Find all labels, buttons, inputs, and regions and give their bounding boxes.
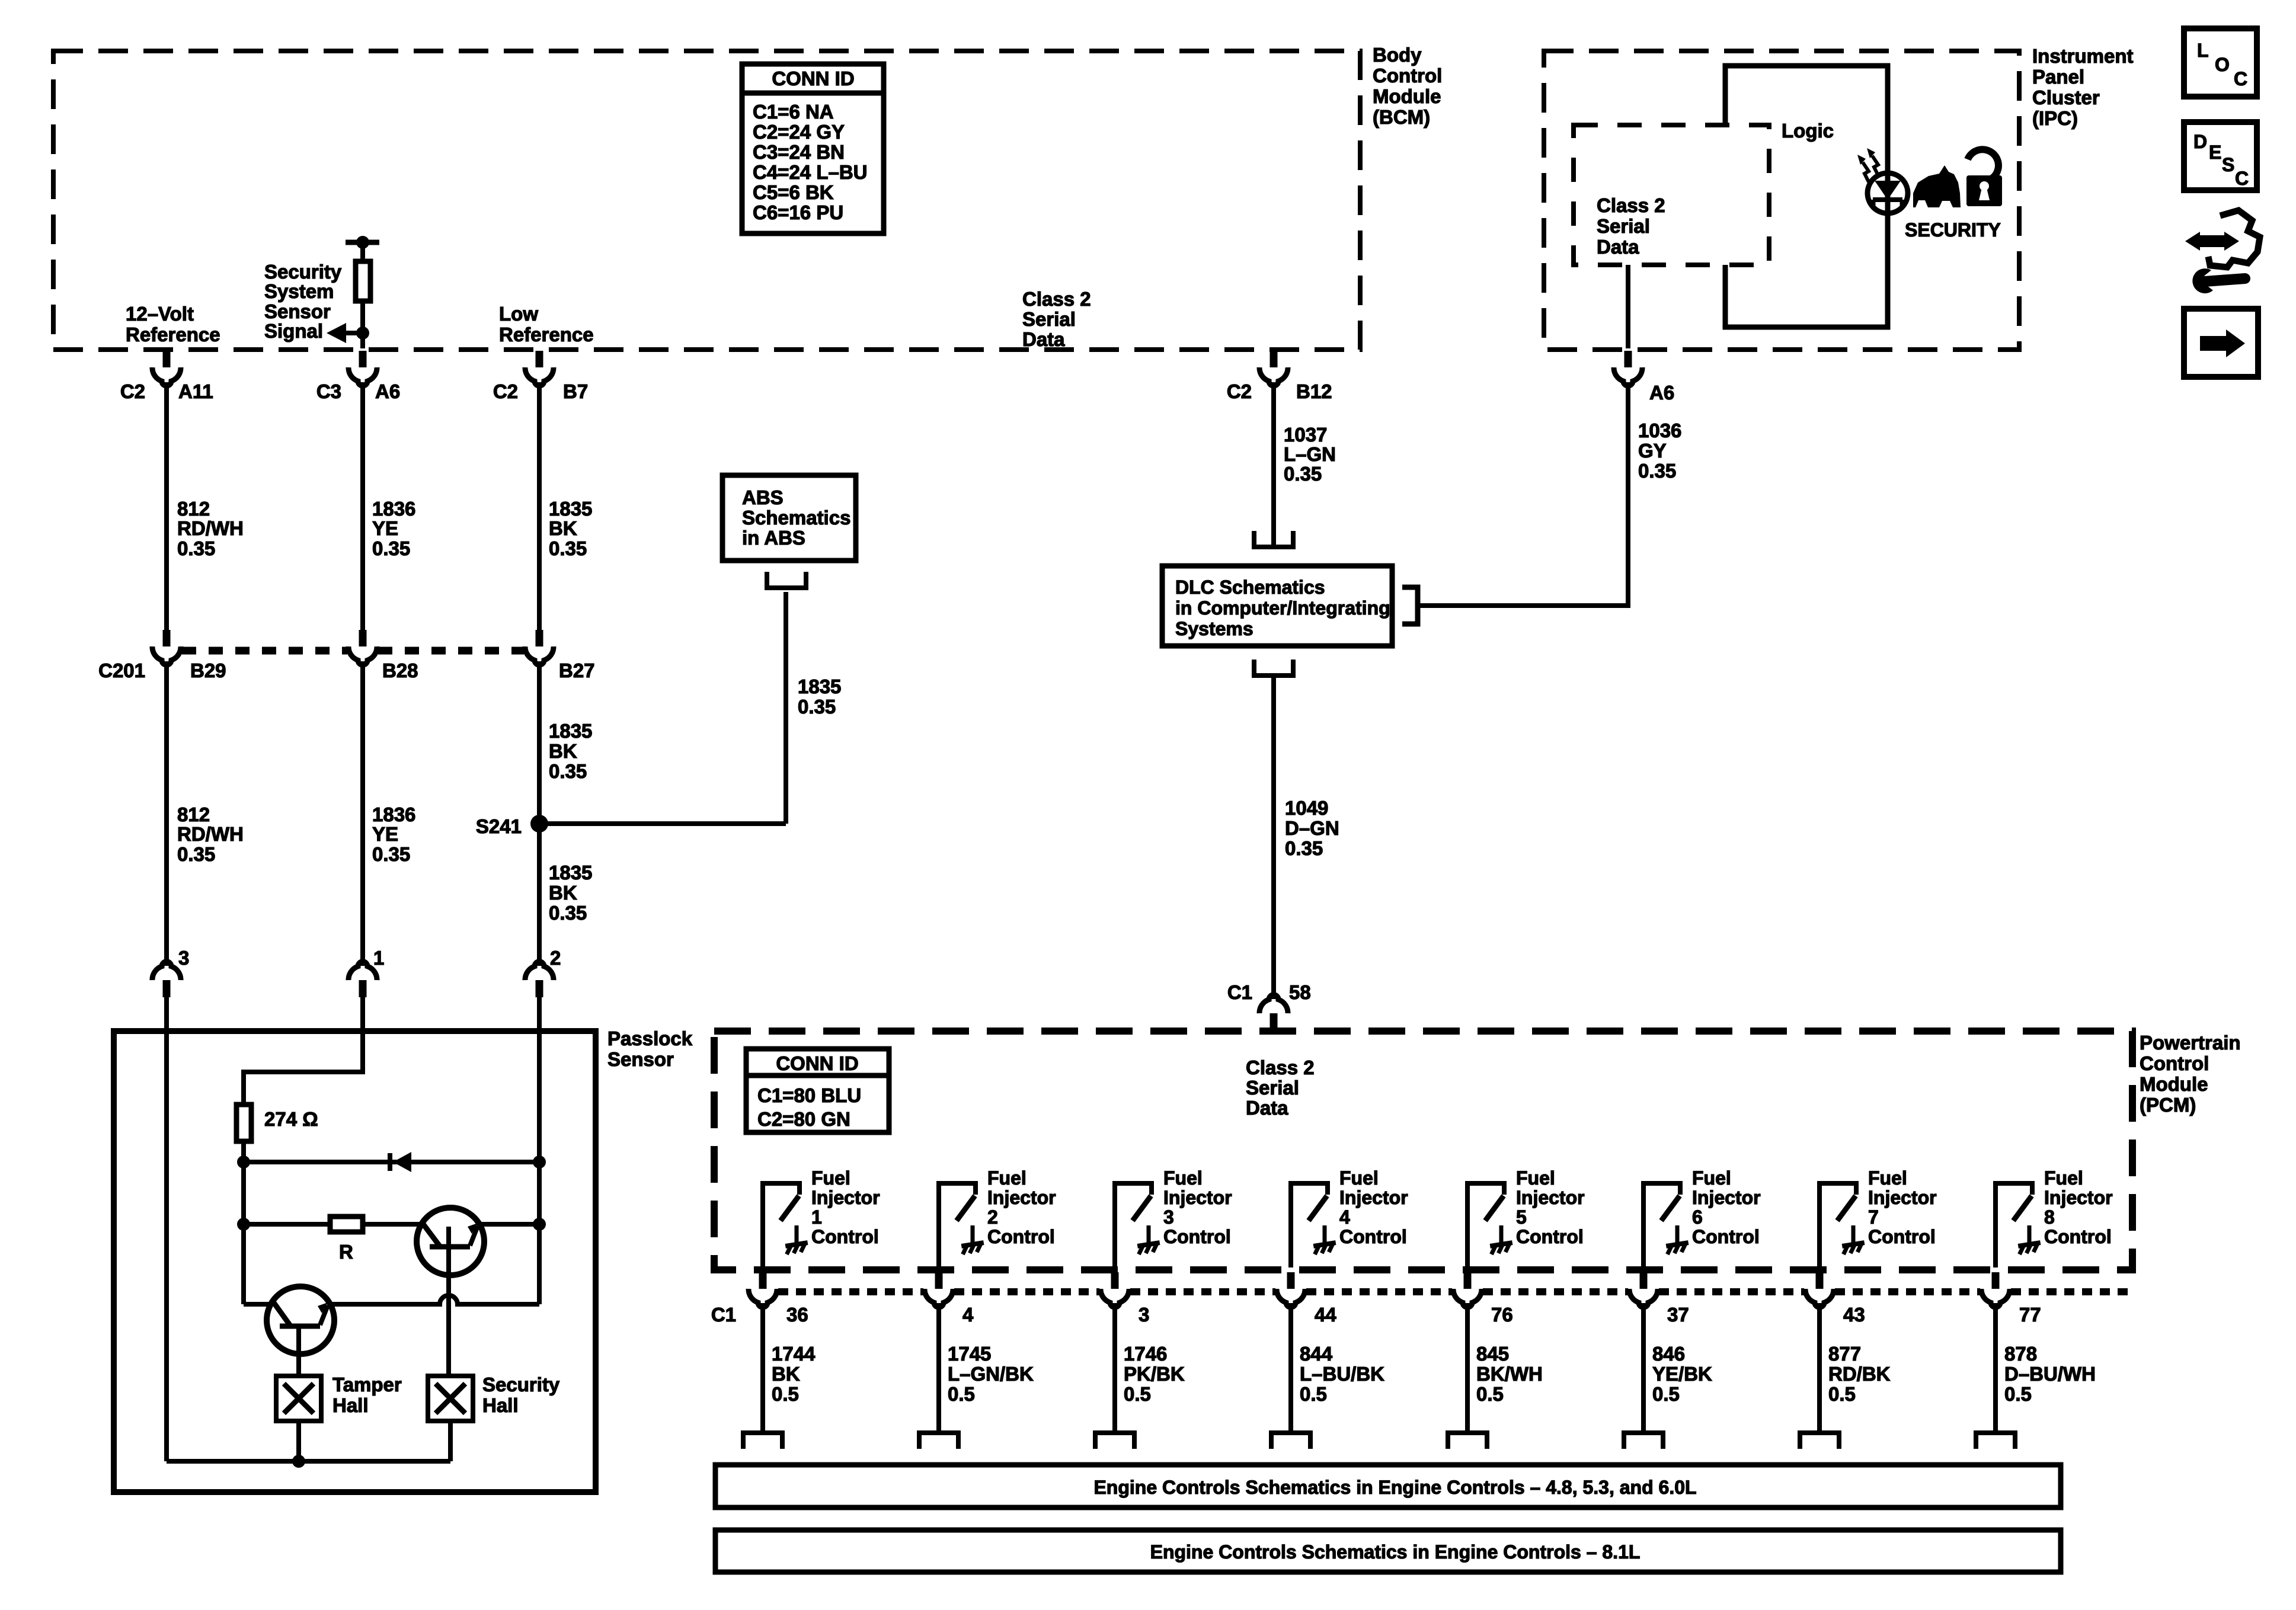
ground (injector 3)	[1137, 1225, 1161, 1254]
svg-text:8: 8	[2044, 1206, 2055, 1228]
resistor 274 ohm	[236, 1105, 251, 1141]
svg-text:(IPC): (IPC)	[2032, 107, 2078, 129]
ground (injector 6)	[1666, 1225, 1690, 1254]
svg-text:0.5: 0.5	[2004, 1383, 2032, 1405]
fuel injector 3 driver switch	[1115, 1183, 1152, 1267]
svg-text:Sensor: Sensor	[264, 300, 331, 322]
svg-text:CONN ID: CONN ID	[772, 68, 854, 89]
svg-text:Hall: Hall	[332, 1394, 369, 1416]
svg-text:Injector: Injector	[811, 1187, 880, 1208]
svg-text:C1: C1	[711, 1304, 736, 1326]
fuel injector 5 driver switch	[1467, 1183, 1504, 1267]
svg-text:BK: BK	[772, 1363, 800, 1385]
ABS off-page bracket	[765, 572, 808, 590]
svg-text:844: 844	[1300, 1343, 1333, 1365]
svg-text:Panel: Panel	[2032, 66, 2084, 88]
Security Hall element	[428, 1376, 473, 1421]
svg-text:Injector: Injector	[1692, 1187, 1761, 1208]
svg-text:5: 5	[1516, 1206, 1527, 1228]
Powertrain Control Module (PCM) dashed box	[714, 1031, 2132, 1270]
DLC right bracket	[1402, 587, 1418, 624]
svg-text:0.35: 0.35	[549, 902, 587, 924]
off-page bracket to engine controls	[1974, 1430, 2017, 1449]
vertical 411 between lines	[241, 1162, 246, 1304]
connector pin 43 (C1)	[1805, 1272, 1834, 1307]
svg-text:Fuel: Fuel	[1868, 1167, 1907, 1189]
svg-text:Passlock: Passlock	[607, 1028, 693, 1049]
svg-text:Control: Control	[1516, 1226, 1584, 1247]
off-page bracket to engine controls	[1093, 1430, 1136, 1449]
svg-text:1746: 1746	[1124, 1343, 1167, 1365]
ground (injector 4)	[1313, 1225, 1337, 1254]
transistor Q2 (tamper hall)	[244, 1302, 271, 1307]
connector pin 44 (C1)	[1277, 1272, 1305, 1307]
svg-text:C3=24 BN: C3=24 BN	[753, 141, 845, 163]
svg-text:Low: Low	[499, 303, 538, 325]
svg-text:12–Volt: 12–Volt	[126, 303, 194, 325]
resistor R	[330, 1217, 363, 1232]
DLC top off-page bracket	[1252, 531, 1295, 549]
svg-text:PK/BK: PK/BK	[1124, 1363, 1185, 1385]
svg-text:4: 4	[962, 1304, 974, 1326]
svg-text:0.5: 0.5	[1828, 1383, 1856, 1405]
svg-text:Control: Control	[1692, 1226, 1760, 1247]
svg-text:0.5: 0.5	[772, 1383, 799, 1405]
svg-text:Control: Control	[811, 1226, 879, 1247]
svg-text:(PCM): (PCM)	[2140, 1094, 2196, 1116]
svg-text:877: 877	[1828, 1343, 1861, 1365]
resistor (security sensor pull-up)	[356, 261, 370, 301]
svg-text:C1=80 BLU: C1=80 BLU	[757, 1084, 861, 1106]
svg-text:76: 76	[1491, 1304, 1513, 1326]
svg-text:Fuel: Fuel	[1516, 1167, 1555, 1189]
svg-text:RD/WH: RD/WH	[177, 517, 244, 539]
connector pin 36 (C1)	[749, 1272, 777, 1307]
svg-text:L: L	[2197, 40, 2209, 61]
CONN ID table (PCM)	[746, 1049, 889, 1132]
svg-text:C6=16 PU: C6=16 PU	[753, 201, 843, 223]
svg-text:845: 845	[1476, 1343, 1509, 1365]
wire pin3 down left side	[164, 1031, 169, 1461]
svg-text:0.35: 0.35	[549, 760, 587, 782]
svg-text:0.35: 0.35	[372, 537, 410, 559]
node: top junction	[356, 236, 369, 249]
svg-text:Class 2: Class 2	[1022, 288, 1091, 310]
svg-text:Injector: Injector	[1339, 1187, 1408, 1208]
svg-text:C: C	[2235, 168, 2249, 189]
svg-text:44: 44	[1315, 1304, 1336, 1326]
svg-text:R: R	[339, 1241, 353, 1263]
svg-text:(BCM): (BCM)	[1373, 106, 1430, 128]
off-page bracket to engine controls	[1446, 1430, 1489, 1449]
Passlock Sensor box	[114, 1031, 596, 1492]
wire 1835 upper	[537, 382, 542, 630]
wire pin1 jog to resistor	[244, 1031, 363, 1105]
svg-text:Tamper: Tamper	[332, 1374, 402, 1395]
fuel injector 7 driver switch	[1819, 1183, 1856, 1267]
Q1 collector down to security hall	[446, 1275, 451, 1376]
svg-text:System: System	[264, 280, 334, 302]
svg-text:0.35: 0.35	[1284, 463, 1322, 485]
svg-text:Fuel: Fuel	[1692, 1167, 1731, 1189]
svg-text:Control: Control	[1339, 1226, 1407, 1247]
diode line	[244, 1160, 539, 1164]
wire S241 to ABS	[539, 821, 786, 826]
svg-text:BK/WH: BK/WH	[1476, 1363, 1543, 1385]
PCM in-line connector dotted row	[778, 1288, 923, 1295]
svg-text:Injector: Injector	[987, 1187, 1056, 1208]
DLC Schematics box	[1162, 566, 1392, 646]
svg-text:B7: B7	[563, 380, 588, 402]
node: diode line left junction	[237, 1156, 250, 1169]
ground (injector 7)	[1842, 1225, 1866, 1254]
IPC logic block solid outline	[1725, 66, 1888, 327]
svg-text:Module: Module	[2140, 1073, 2208, 1095]
svg-text:A6: A6	[1649, 382, 1674, 404]
svg-text:1835: 1835	[549, 498, 592, 520]
svg-text:1835: 1835	[549, 862, 592, 884]
svg-text:1: 1	[811, 1206, 822, 1228]
svg-text:BK: BK	[549, 882, 577, 904]
svg-text:C5=6 BK: C5=6 BK	[753, 181, 834, 203]
svg-text:Fuel: Fuel	[1339, 1167, 1379, 1189]
svg-text:Injector: Injector	[2044, 1187, 2113, 1208]
svg-text:Engine Controls Schematics in: Engine Controls Schematics in Engine Con…	[1150, 1541, 1641, 1563]
svg-text:Reference: Reference	[126, 324, 220, 345]
svg-text:Class 2: Class 2	[1246, 1057, 1315, 1078]
fuel injector 8 driver switch	[1996, 1183, 2032, 1267]
svg-text:1835: 1835	[549, 720, 592, 742]
fuel injector 4 driver switch	[1291, 1183, 1328, 1267]
svg-text:Security: Security	[482, 1374, 560, 1395]
svg-text:1836: 1836	[372, 498, 415, 520]
svg-text:Serial: Serial	[1022, 308, 1076, 330]
svg-text:812: 812	[177, 498, 210, 520]
Q2 collector down to tamper hall	[296, 1354, 301, 1376]
svg-text:Injector: Injector	[1868, 1187, 1937, 1208]
connector C2/A11 at BCM	[152, 351, 181, 386]
C201 in-line connector row	[152, 630, 181, 665]
svg-text:1836: 1836	[372, 804, 415, 825]
svg-text:Schematics: Schematics	[742, 507, 850, 529]
Body Control Module (BCM) dashed box	[53, 51, 1360, 350]
svg-text:1036: 1036	[1638, 420, 1681, 441]
svg-text:846: 846	[1652, 1343, 1685, 1365]
splice S241	[530, 815, 548, 833]
LOC icon box	[2184, 28, 2257, 97]
DESC icon box	[2184, 122, 2257, 190]
svg-text:Signal: Signal	[264, 320, 323, 342]
passlock pin connectors	[152, 962, 181, 997]
wire 1746	[1112, 1303, 1117, 1432]
svg-text:0.5: 0.5	[1652, 1383, 1680, 1405]
svg-text:Fuel: Fuel	[2044, 1167, 2083, 1189]
bottom return wire	[296, 1421, 301, 1461]
svg-text:Engine Controls Schematics in: Engine Controls Schematics in Engine Con…	[1093, 1477, 1696, 1498]
node: ground return junction	[292, 1455, 305, 1468]
wire 877	[1817, 1303, 1822, 1432]
svg-text:Module: Module	[1373, 85, 1441, 107]
svg-text:in Computer/Integrating: in Computer/Integrating	[1175, 597, 1390, 619]
SECURITY car+lock icon	[1913, 165, 1961, 207]
svg-text:C2=24 GY: C2=24 GY	[753, 121, 845, 143]
svg-text:Fuel: Fuel	[987, 1167, 1027, 1189]
ABS Schematics box	[722, 475, 856, 561]
connector C2/B12 at BCM	[1259, 351, 1288, 386]
svg-text:Serial: Serial	[1597, 215, 1650, 237]
svg-text:77: 77	[2019, 1304, 2041, 1326]
svg-text:2: 2	[550, 947, 561, 969]
svg-text:D: D	[2193, 131, 2207, 152]
svg-text:C4=24 L–BU: C4=24 L–BU	[753, 161, 868, 183]
wire 845	[1465, 1303, 1470, 1432]
svg-text:Systems: Systems	[1175, 618, 1253, 639]
svg-text:Cluster: Cluster	[2032, 87, 2100, 108]
svg-text:0.5: 0.5	[948, 1383, 975, 1405]
off-page bracket to engine controls	[917, 1430, 960, 1449]
svg-text:S241: S241	[476, 815, 522, 837]
svg-text:Sensor: Sensor	[607, 1048, 674, 1070]
Engine Controls Schematics box 4.8/5.3/6.0	[715, 1465, 2061, 1507]
svg-text:Control: Control	[1868, 1226, 1936, 1247]
svg-text:C: C	[2234, 68, 2247, 89]
forward arrow icon box	[2184, 309, 2258, 377]
svg-text:0.35: 0.35	[549, 537, 587, 559]
svg-text:Serial: Serial	[1246, 1077, 1299, 1099]
svg-text:C2: C2	[1227, 380, 1252, 402]
svg-text:274 Ω: 274 Ω	[264, 1108, 318, 1130]
svg-text:C2=80 GN: C2=80 GN	[757, 1108, 850, 1130]
svg-text:DLC Schematics: DLC Schematics	[1175, 577, 1325, 598]
svg-text:B27: B27	[559, 660, 595, 681]
svg-text:D–BU/WH: D–BU/WH	[2004, 1363, 2096, 1385]
svg-text:3: 3	[1163, 1206, 1174, 1228]
svg-text:0.5: 0.5	[1124, 1383, 1151, 1405]
svg-text:L–GN: L–GN	[1284, 443, 1336, 465]
svg-text:GY: GY	[1638, 440, 1667, 462]
svg-text:L–BU/BK: L–BU/BK	[1300, 1363, 1384, 1385]
LED indicator (security telltale)	[1868, 173, 1908, 213]
security sensor pull-up: top tie bar	[346, 240, 379, 245]
svg-text:878: 878	[2004, 1343, 2037, 1365]
wire	[360, 301, 365, 348]
svg-text:3: 3	[178, 947, 189, 969]
svg-text:D–GN: D–GN	[1285, 817, 1339, 839]
connector pin 76 (C1)	[1453, 1272, 1482, 1307]
off-page bracket to engine controls	[1622, 1430, 1665, 1449]
svg-text:Instrument: Instrument	[2032, 45, 2134, 67]
svg-text:Class 2: Class 2	[1597, 194, 1665, 216]
fuel injector 2 driver switch	[939, 1183, 976, 1267]
svg-text:Data: Data	[1597, 236, 1639, 258]
svg-text:1835: 1835	[798, 676, 841, 697]
svg-text:6: 6	[1692, 1206, 1703, 1228]
connector C3/A6 at BCM	[348, 351, 377, 386]
svg-text:0.35: 0.35	[798, 696, 836, 718]
svg-text:Logic: Logic	[1782, 120, 1834, 142]
svg-text:1037: 1037	[1284, 424, 1327, 446]
wire 812 upper	[164, 382, 169, 630]
connector pin 37 (C1)	[1629, 1272, 1658, 1307]
wire from DLC bracket to IPC A6	[1420, 382, 1628, 606]
svg-text:Control: Control	[1163, 1226, 1231, 1247]
svg-text:CONN ID: CONN ID	[776, 1052, 858, 1074]
node: diode line right junction	[533, 1156, 546, 1169]
svg-text:SECURITY: SECURITY	[1905, 219, 2001, 241]
wire	[360, 242, 365, 261]
ground (injector 8)	[2018, 1225, 2042, 1254]
svg-text:B28: B28	[382, 660, 418, 681]
off-page bracket to engine controls	[741, 1430, 784, 1449]
svg-text:L–GN/BK: L–GN/BK	[948, 1363, 1034, 1385]
svg-text:1: 1	[373, 947, 384, 969]
LED arrows	[1863, 162, 1869, 182]
svg-text:YE: YE	[372, 823, 398, 845]
svg-text:Data: Data	[1022, 328, 1065, 350]
svg-text:0.35: 0.35	[1638, 460, 1676, 482]
svg-text:Control: Control	[2140, 1052, 2209, 1074]
svg-text:Injector: Injector	[1516, 1187, 1585, 1208]
off-page bracket to engine controls	[1269, 1430, 1312, 1449]
inner dashed box Class 2 Serial Data	[1574, 125, 1769, 265]
svg-text:1049: 1049	[1285, 797, 1328, 819]
svg-text:Powertrain: Powertrain	[2140, 1032, 2241, 1054]
svg-text:BK: BK	[549, 740, 577, 762]
fuel injector 6 driver switch	[1643, 1183, 1680, 1267]
svg-text:C2: C2	[120, 380, 145, 402]
connector C2/B7 at BCM	[525, 351, 554, 386]
ground (injector 1)	[785, 1225, 809, 1254]
svg-text:1744: 1744	[772, 1343, 816, 1365]
svg-text:2: 2	[987, 1206, 998, 1228]
CONN ID table (BCM)	[742, 64, 884, 233]
svg-text:Fuel: Fuel	[811, 1167, 850, 1189]
svg-text:C201: C201	[98, 660, 145, 681]
Instrument Panel Cluster (IPC) dashed box	[1544, 51, 2019, 350]
wire 878	[1993, 1303, 1998, 1432]
off-page bracket to engine controls	[1798, 1430, 1841, 1449]
wire 844	[1288, 1303, 1293, 1432]
svg-text:YE/BK: YE/BK	[1652, 1363, 1712, 1385]
svg-text:A6: A6	[375, 380, 400, 402]
svg-text:O: O	[2215, 54, 2230, 75]
ground (injector 2)	[961, 1225, 985, 1254]
svg-text:1745: 1745	[948, 1343, 991, 1365]
node: R line right junction	[533, 1218, 546, 1231]
Tamper Hall element	[276, 1376, 321, 1421]
svg-text:0.35: 0.35	[177, 537, 215, 559]
svg-text:C2: C2	[493, 380, 518, 402]
svg-text:0.35: 0.35	[177, 843, 215, 865]
svg-text:E: E	[2209, 142, 2221, 163]
connector pin 3 (C1)	[1101, 1272, 1129, 1307]
wire 846	[1641, 1303, 1646, 1432]
svg-text:37: 37	[1667, 1304, 1689, 1326]
node: R line left junction	[237, 1218, 250, 1231]
transistor Q1 (security hall)	[417, 1208, 484, 1275]
wire from class2 box down to A6	[1626, 265, 1630, 348]
svg-text:0.5: 0.5	[1300, 1383, 1327, 1405]
svg-text:43: 43	[1843, 1304, 1865, 1326]
svg-text:0.35: 0.35	[1285, 837, 1323, 859]
svg-text:Hall: Hall	[482, 1394, 519, 1416]
svg-text:S: S	[2222, 154, 2234, 175]
svg-text:Security: Security	[264, 261, 342, 283]
wire 1037 from B12	[1271, 382, 1276, 548]
fuel injector 1 driver switch	[763, 1183, 800, 1267]
svg-text:Reference: Reference	[499, 324, 594, 345]
connector C1/58 at PCM	[1259, 995, 1288, 1030]
svg-text:in ABS: in ABS	[742, 527, 805, 549]
svg-text:Control: Control	[1373, 65, 1442, 87]
svg-text:Body: Body	[1373, 44, 1422, 66]
svg-text:C3: C3	[316, 380, 341, 402]
svg-text:B12: B12	[1296, 380, 1332, 402]
svg-text:B29: B29	[190, 660, 226, 681]
wire 1744	[760, 1303, 765, 1432]
svg-text:C1=6 NA: C1=6 NA	[753, 101, 834, 123]
connector pin 4 (C1)	[925, 1272, 953, 1307]
DLC bottom off-page bracket	[1252, 660, 1295, 678]
svg-text:4: 4	[1339, 1206, 1350, 1228]
svg-text:YE: YE	[372, 517, 398, 539]
svg-text:Control: Control	[987, 1226, 1055, 1247]
ground (injector 5)	[1490, 1225, 1514, 1254]
svg-text:Injector: Injector	[1163, 1187, 1232, 1208]
Q2 emitter line with jump over Q1 collector	[330, 1295, 539, 1304]
wire 1835 mid	[537, 661, 542, 966]
Engine Controls Schematics box 8.1L	[715, 1530, 2061, 1572]
svg-text:3: 3	[1139, 1304, 1149, 1326]
svg-text:812: 812	[177, 804, 210, 825]
svg-text:C1: C1	[1227, 981, 1252, 1003]
wire 1745	[936, 1303, 941, 1432]
signal arrow pointing left	[343, 331, 363, 335]
wire 1836 upper	[360, 382, 365, 630]
svg-text:Fuel: Fuel	[1163, 1167, 1203, 1189]
svg-text:RD/WH: RD/WH	[177, 823, 244, 845]
connector pin 77 (C1)	[1981, 1272, 2010, 1307]
connector A6 at IPC	[1614, 351, 1642, 386]
diode (cathode bar + triangle pointing left)	[388, 1153, 392, 1171]
svg-text:0.5: 0.5	[1476, 1383, 1504, 1405]
svg-text:0.35: 0.35	[372, 843, 410, 865]
svg-text:36: 36	[786, 1304, 808, 1326]
svg-text:RD/BK: RD/BK	[1828, 1363, 1891, 1385]
node: signal junction	[356, 327, 369, 340]
svg-text:7: 7	[1868, 1206, 1879, 1228]
wire 812 lower	[164, 661, 169, 966]
svg-text:58: 58	[1289, 981, 1311, 1003]
svg-text:Control: Control	[2044, 1226, 2112, 1247]
svg-text:A11: A11	[178, 380, 213, 402]
svg-text:ABS: ABS	[742, 486, 784, 508]
svg-text:Data: Data	[1246, 1097, 1288, 1119]
wire pin2 down right side	[537, 1031, 542, 1304]
svg-text:BK: BK	[549, 517, 577, 539]
wire 1836 lower	[360, 661, 365, 966]
diagnostic wrench icon	[2208, 210, 2260, 267]
wire 1049 down to PCM	[1271, 676, 1276, 999]
